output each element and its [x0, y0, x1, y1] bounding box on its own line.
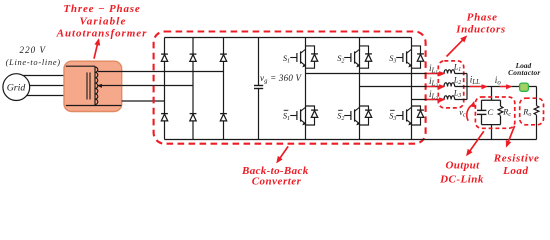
- wire output main: [467, 86, 537, 88]
- load contactor green square: [520, 83, 529, 91]
- rectifier diode D5 bottom: [190, 114, 197, 121]
- switch S3bar: [396, 106, 424, 125]
- wire down to bottom bus: [491, 125, 493, 140]
- label: 220 V (Line-to-line): [6, 45, 61, 67]
- svg-text:Three − Phase: Three − Phase: [63, 3, 140, 15]
- node: merge bus: [466, 74, 468, 100]
- dc bus bottom: [165, 139, 537, 141]
- current arrow iL3: [427, 98, 446, 103]
- wire transformer to rectifier phase a: [98, 71, 224, 73]
- svg-text:C: C: [487, 107, 493, 117]
- resistor Ro: [534, 106, 539, 115]
- rectifier diode D4 bottom: [161, 114, 168, 121]
- rectifier leg 3 wire: [223, 38, 225, 140]
- current arrow iL2: [427, 85, 446, 90]
- switch S1bar: [290, 106, 318, 125]
- resistor Rc: [500, 100, 502, 106]
- autotransformer core bars: [86, 72, 88, 99]
- wire grid phase c: [23, 95, 64, 97]
- dc-link capacitor vg: [258, 38, 260, 86]
- svg-text:(Line-to-line): (Line-to-line): [6, 58, 61, 67]
- svg-text:Variable: Variable: [79, 15, 126, 27]
- inductor L2: [444, 83, 455, 87]
- svg-text:220 V: 220 V: [20, 45, 47, 55]
- autotransformer top lead: [66, 65, 95, 67]
- svg-text:Converter: Converter: [252, 175, 302, 187]
- svg-text:Grid: Grid: [7, 83, 26, 94]
- wire inverter phase 3 to L3: [412, 99, 445, 101]
- output dc-link top connector: [482, 99, 501, 101]
- wire transformer to rectifier phase b: [122, 85, 193, 87]
- current arrow iL1: [427, 71, 446, 76]
- dc bus top: [165, 37, 412, 39]
- rectifier diode D6 bottom: [220, 114, 227, 121]
- resistive load right edge wire: [536, 87, 538, 106]
- rectifier leg 2 wire: [192, 38, 194, 140]
- svg-text:Inductors: Inductors: [455, 24, 506, 36]
- red arrow to autotransformer: [94, 39, 100, 59]
- wire grid phase a: [23, 75, 64, 77]
- svg-text:Load: Load: [502, 165, 528, 177]
- capacitor C: [481, 100, 483, 110]
- label Resistive Load (red): [493, 152, 540, 177]
- red arrow to back-to-back converter: [277, 146, 289, 163]
- wire tap down to output dc-link: [491, 87, 493, 101]
- current arrow io: [500, 85, 513, 90]
- output dc-link dashed box: [475, 97, 514, 128]
- label: Three-Phase Variable Autotransformer (red): [56, 3, 148, 40]
- rectifier diode D1 top: [161, 54, 168, 61]
- output dc-link bottom connector: [482, 124, 501, 126]
- wire inverter phase 1 to L1: [306, 73, 445, 75]
- red curved arrow vc: [467, 105, 472, 121]
- svg-text:Resistive: Resistive: [493, 152, 540, 164]
- rectifier diode D2 top: [190, 54, 197, 61]
- red arrow to phase inductors: [447, 36, 467, 57]
- label Back-to-Back Converter (red): [241, 165, 309, 187]
- back-to-back converter dashed box: [154, 32, 426, 144]
- svg-text:DC-Link: DC-Link: [439, 173, 484, 185]
- wire inverter phase 2 to L2: [360, 86, 445, 88]
- autotransformer winding coil: [95, 66, 98, 105]
- label Phase Inductors (red): [455, 11, 506, 35]
- inductor L1: [444, 70, 455, 74]
- phase inductors dashed box: [438, 61, 463, 108]
- resistive load dashed box: [520, 98, 544, 125]
- rectifier leg 1 wire: [164, 38, 166, 140]
- svg-text:Autotransformer: Autotransformer: [56, 28, 148, 40]
- svg-text:Contactor: Contactor: [508, 68, 540, 77]
- switch S3: [396, 46, 424, 68]
- autotransformer bottom lead: [66, 105, 122, 107]
- wire transformer to rectifier phase c: [122, 100, 165, 102]
- autotransformer box: [64, 61, 122, 111]
- switch S1 (igbt + diode): [290, 46, 318, 68]
- current arrow iLL: [470, 85, 488, 90]
- label Output DC-Link (red): [439, 160, 484, 186]
- autotransformer tap arrow: [100, 85, 122, 87]
- svg-text:Output: Output: [445, 160, 480, 172]
- inverter leg A wire: [305, 38, 307, 140]
- grid source circle: [3, 74, 30, 101]
- rectifier diode D3 top: [220, 54, 227, 61]
- switch S2bar: [344, 106, 372, 125]
- svg-text:Phase: Phase: [467, 11, 498, 23]
- inverter leg C wire: [411, 38, 413, 140]
- inverter leg B wire: [359, 38, 361, 140]
- switch S2: [344, 46, 372, 68]
- red arrow to output dc-link: [466, 131, 483, 156]
- wire grid phase b: [28, 85, 64, 87]
- red arrow to resistive load: [506, 126, 514, 147]
- inductor L3: [444, 96, 455, 100]
- label Load Contactor: [508, 61, 540, 77]
